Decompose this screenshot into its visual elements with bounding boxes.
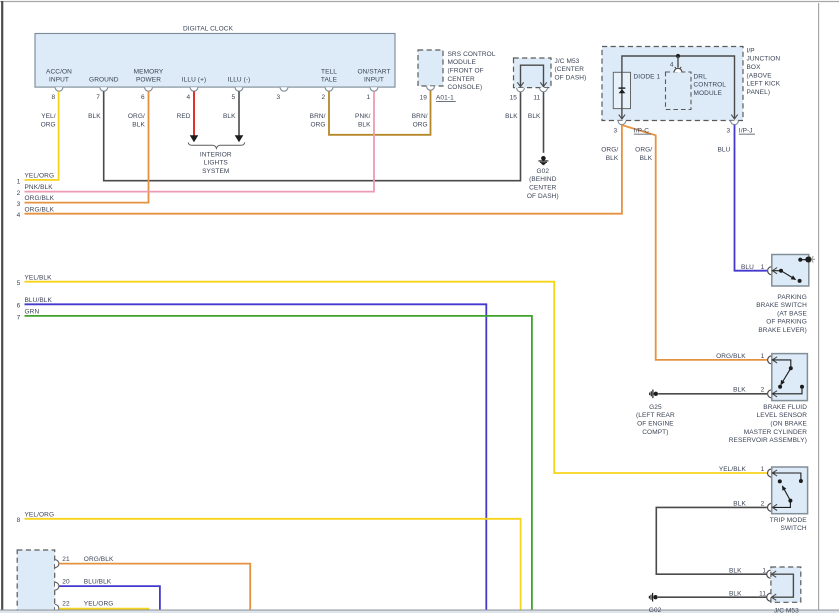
label YEL/BLK at trip mode switch <box>719 466 747 473</box>
label ORG/BLK at sensor <box>716 353 746 360</box>
label BLK at J/C M53 pin1 <box>729 567 742 574</box>
sensor pin number 2 <box>761 387 765 394</box>
svg-text:BLK: BLK <box>88 113 101 120</box>
svg-text:I/P: I/P <box>747 47 755 54</box>
label ORG/BLK pin6 <box>128 113 146 129</box>
svg-text:MASTER CYLINDER: MASTER CYLINDER <box>744 429 807 436</box>
svg-text:19: 19 <box>420 95 428 102</box>
label BLU <box>717 147 730 154</box>
junction node dot <box>676 54 680 58</box>
wire node8 YEL/ORG down <box>25 519 521 610</box>
svg-text:I/P-J: I/P-J <box>739 127 753 134</box>
svg-text:YEL/BLK: YEL/BLK <box>719 466 747 473</box>
svg-text:DIGITAL CLOCK: DIGITAL CLOCK <box>183 26 234 33</box>
junction connector J/C M53 box <box>514 58 552 88</box>
label BRN/ORG pin2 <box>310 113 326 129</box>
label G02 bottom <box>649 607 662 613</box>
svg-text:BLK: BLK <box>729 567 742 574</box>
module bottom-left connector box <box>17 550 55 613</box>
sensor pin1 connector <box>768 356 772 364</box>
J/C M53 pin numbers 15 11 <box>510 94 541 101</box>
svg-text:PANEL): PANEL) <box>747 89 771 96</box>
svg-text:ORG: ORG <box>413 122 428 129</box>
module DRL control module box <box>666 72 692 110</box>
svg-text:I/P-C: I/P-C <box>634 127 650 134</box>
svg-text:(AT BASE: (AT BASE <box>777 310 807 317</box>
svg-text:BLK: BLK <box>505 113 518 120</box>
wire node5 YEL/BLK to trip mode switch <box>25 282 767 473</box>
svg-text:BLK: BLK <box>733 387 746 394</box>
connector label I/P-C <box>634 127 651 134</box>
svg-text:MEMORY: MEMORY <box>134 68 164 75</box>
svg-text:1: 1 <box>762 567 766 574</box>
svg-text:GRN: GRN <box>25 309 40 316</box>
wire pin5 BLK to interior lights <box>235 91 244 142</box>
svg-text:3: 3 <box>276 94 280 101</box>
svg-text:RESERVOIR ASSEMBLY): RESERVOIR ASSEMBLY) <box>729 437 807 444</box>
footnote asterisk <box>805 256 815 262</box>
wire I/P-C ORG/BLK branch to brake fluid sensor <box>622 125 767 360</box>
I/P box pin connectors <box>618 121 738 125</box>
svg-text:J/C M53: J/C M53 <box>774 608 799 613</box>
svg-text:ORG/BLK: ORG/BLK <box>716 353 746 360</box>
I/P-J pin number 3 <box>726 127 730 134</box>
svg-text:8: 8 <box>51 94 55 101</box>
sensor pin2 connector <box>768 390 772 398</box>
svg-text:8: 8 <box>17 517 21 524</box>
svg-text:11: 11 <box>759 590 766 597</box>
wire G25 BLK to sensor pin2 <box>658 393 767 395</box>
digital clock pin connectors <box>55 87 378 91</box>
svg-text:BLK: BLK <box>358 122 371 129</box>
svg-text:15: 15 <box>510 94 518 101</box>
svg-text:MODULE: MODULE <box>694 90 723 97</box>
digital clock pin numbers 8 7 6 4 5 3 2 1 <box>51 94 370 101</box>
J/C M53 bottom pin11 connector <box>767 593 771 601</box>
label PARKING BRAKE SWITCH (AT BASE OF PARKING BRAKE LEVER) <box>756 294 807 334</box>
digital clock pin labels <box>46 68 390 83</box>
label BLK at trip mode switch <box>733 500 746 507</box>
svg-text:BRN/: BRN/ <box>310 113 326 120</box>
svg-text:ORG: ORG <box>41 122 56 129</box>
sensor pin number 1 <box>761 353 765 360</box>
svg-text:OF PARKING: OF PARKING <box>766 319 807 326</box>
label BLK at sensor <box>733 387 746 394</box>
diode D1 box <box>613 72 630 108</box>
module SRS control module box <box>418 50 443 86</box>
label DIODE 1 <box>634 73 661 80</box>
wire pin6 ORG/BLK to node 3 <box>25 91 149 202</box>
svg-text:BLK: BLK <box>606 155 619 162</box>
svg-text:7: 7 <box>96 94 100 101</box>
svg-text:ON/START: ON/START <box>357 68 390 75</box>
label BLK at J/C M53 pin11 <box>729 590 742 597</box>
diode D1 symbol <box>619 87 626 93</box>
svg-text:ORG/: ORG/ <box>128 113 145 120</box>
J/C M53 pin connectors <box>517 88 548 92</box>
page bottom edge <box>0 610 839 613</box>
svg-text:G02: G02 <box>649 607 662 613</box>
svg-text:11: 11 <box>533 94 540 101</box>
svg-text:LIGHTS: LIGHTS <box>204 160 229 167</box>
wire pin22 YEL/ORG down <box>59 609 148 610</box>
svg-text:TELL: TELL <box>321 68 337 75</box>
junction connector J/C M53 bottom box <box>771 567 801 602</box>
svg-text:6: 6 <box>141 94 145 101</box>
J/C M53 internal wire <box>521 65 544 87</box>
brace interior lights system <box>188 142 244 148</box>
svg-text:SYSTEM: SYSTEM <box>202 168 229 175</box>
label PNK/BLK pin1 <box>355 113 371 129</box>
svg-text:(FRONT OF: (FRONT OF <box>448 68 484 75</box>
brake fluid level sensor contacts <box>772 357 804 397</box>
svg-text:A01-1: A01-1 <box>436 95 454 102</box>
parking brake switch pin1 connector <box>768 267 772 275</box>
label BLK pin7 <box>88 113 101 120</box>
svg-text:7: 7 <box>17 314 21 321</box>
svg-text:MODULE: MODULE <box>448 59 477 66</box>
svg-text:ACC/ON: ACC/ON <box>46 68 72 75</box>
svg-text:OF DASH): OF DASH) <box>527 193 559 200</box>
wire node4 ORG/BLK to I/P-C pin3 <box>25 125 622 214</box>
label BRAKE FLUID LEVEL SENSOR (ON BRAKE MASTER CYLINDER RESERVOIR ASSEMBLY) <box>729 404 808 444</box>
label INTERIOR LIGHTS SYSTEM <box>200 152 232 175</box>
J/C M53 pin arrows <box>517 82 546 86</box>
svg-text:YEL/ORG: YEL/ORG <box>25 173 55 180</box>
svg-text:JUNCTION: JUNCTION <box>747 56 781 63</box>
svg-text:BLU/BLK: BLU/BLK <box>25 297 53 304</box>
label BLK pin11 <box>528 113 541 120</box>
svg-text:DRL: DRL <box>694 73 708 80</box>
svg-text:ORG/BLK: ORG/BLK <box>25 206 55 213</box>
wire G02 BLK to J/C M53 pin11 <box>658 596 767 598</box>
wire internal bus I/P junction box <box>622 56 735 118</box>
label I/P JUNCTION BOX (ABOVE LEFT KICK PANEL) <box>747 47 781 96</box>
label TRIP MODE SWITCH <box>770 517 807 532</box>
svg-text:PNK/BLK: PNK/BLK <box>25 184 54 191</box>
svg-text:BRN/: BRN/ <box>412 113 428 120</box>
switch S2 brake fluid level sensor box <box>772 354 808 401</box>
svg-text:2: 2 <box>761 500 765 507</box>
wire trip pin2 BLK to J/C M53 pin1 <box>656 507 767 574</box>
svg-text:(BEHIND: (BEHIND <box>529 176 557 183</box>
parking brake switch pin number 1 <box>761 264 765 271</box>
svg-text:4: 4 <box>670 61 674 68</box>
svg-text:G02: G02 <box>537 168 550 175</box>
svg-text:OF DASH): OF DASH) <box>555 75 587 82</box>
svg-text:3: 3 <box>613 127 617 134</box>
node 5 label YEL/BLK <box>17 274 52 287</box>
label BRN/ORG SRS <box>412 113 428 129</box>
svg-text:BLK: BLK <box>729 590 742 597</box>
I/P box pin arrows <box>619 115 738 119</box>
svg-text:TALE: TALE <box>321 77 338 84</box>
svg-text:BLU/BLK: BLU/BLK <box>84 578 112 585</box>
svg-text:BLU: BLU <box>717 147 730 154</box>
DRL pin number 4 <box>670 61 674 68</box>
J/C M53 bottom pin number 11 <box>759 590 766 597</box>
svg-text:20: 20 <box>62 578 70 585</box>
svg-text:SRS CONTROL: SRS CONTROL <box>448 51 496 58</box>
wire pin21 ORG/BLK down <box>59 564 250 610</box>
svg-text:COMPT): COMPT) <box>642 429 668 436</box>
svg-text:PNK/: PNK/ <box>355 113 371 120</box>
svg-text:5: 5 <box>17 280 21 287</box>
svg-text:CONTROL: CONTROL <box>694 82 727 89</box>
label RED pin4 <box>177 113 191 120</box>
svg-text:INTERIOR: INTERIOR <box>200 152 232 159</box>
module I/P junction box <box>602 47 743 121</box>
svg-text:RED: RED <box>177 113 191 120</box>
svg-text:POWER: POWER <box>136 77 161 84</box>
svg-text:CONSOLE): CONSOLE) <box>448 84 483 91</box>
svg-text:2: 2 <box>321 94 325 101</box>
svg-text:YEL/ORG: YEL/ORG <box>25 511 55 518</box>
wire pin7 BLK ground bus to J/C M53 pin15 <box>104 91 521 180</box>
svg-text:INPUT: INPUT <box>49 77 69 84</box>
svg-text:BOX: BOX <box>747 64 762 71</box>
label J/C M53 (CENTER OF DASH) <box>555 58 587 82</box>
svg-text:BRAKE FLUID: BRAKE FLUID <box>763 404 807 411</box>
label G02 (BEHIND CENTER OF DASH) <box>527 168 559 200</box>
wire node7 GRN down <box>25 316 532 610</box>
node 6 label BLU/BLK <box>17 297 53 310</box>
svg-text:BLK: BLK <box>733 500 746 507</box>
connector label A01-1 <box>436 95 456 102</box>
label BLK pin5 <box>223 113 236 120</box>
svg-text:3: 3 <box>726 127 730 134</box>
node 3 label ORG/BLK <box>17 195 55 208</box>
wire pin20 BLU/BLK down <box>59 586 160 610</box>
I/P-C pin number 3 <box>613 127 617 134</box>
svg-text:YEL/: YEL/ <box>41 113 56 120</box>
ground G02 behind dash <box>538 156 548 165</box>
svg-text:1: 1 <box>761 264 765 271</box>
svg-text:BLU: BLU <box>741 264 754 271</box>
DRL pin4 connector <box>674 68 682 72</box>
J/C M53 bottom pin number 1 <box>762 567 766 574</box>
wire I/P-J BLU to parking brake switch <box>735 125 767 271</box>
svg-text:BRAKE LEVER): BRAKE LEVER) <box>758 327 807 334</box>
svg-text:TRIP MODE: TRIP MODE <box>770 517 807 524</box>
trip mode switch pin number 1 <box>761 466 765 473</box>
svg-text:YEL/BLK: YEL/BLK <box>25 274 53 281</box>
DRL pin4 arrow <box>675 67 681 71</box>
svg-text:CENTER: CENTER <box>529 185 557 192</box>
svg-text:(ON BRAKE: (ON BRAKE <box>770 421 807 428</box>
svg-text:SWITCH: SWITCH <box>780 525 806 532</box>
node 4 label ORG/BLK <box>17 206 55 219</box>
ground G02 bottom <box>649 593 657 602</box>
connector label I/P-J <box>739 127 755 134</box>
svg-text:OF ENGINE: OF ENGINE <box>637 421 674 428</box>
svg-text:(LEFT REAR: (LEFT REAR <box>636 412 675 419</box>
wire pin8 YEL/ORG to node 1 <box>25 91 59 179</box>
switch S3 trip mode switch box <box>772 467 808 514</box>
label ORG/BLK diode leg <box>601 147 619 163</box>
svg-text:BLK: BLK <box>528 113 541 120</box>
svg-text:BRAKE SWITCH: BRAKE SWITCH <box>756 302 807 309</box>
svg-text:ORG: ORG <box>310 122 325 129</box>
label BLU at parking brake switch <box>741 264 754 271</box>
node 7 label GRN <box>17 309 40 322</box>
svg-text:ORG/: ORG/ <box>635 147 652 154</box>
J/C M53 bottom pin1 connector <box>767 570 771 578</box>
label BLK pin15 <box>505 113 518 120</box>
pin number 20 label BLU/BLK <box>62 578 112 585</box>
svg-text:1: 1 <box>17 178 21 185</box>
svg-text:1: 1 <box>761 466 765 473</box>
wire node6 BLU/BLK down <box>25 304 487 609</box>
svg-text:BLK: BLK <box>640 155 653 162</box>
trip mode switch pin1 connector <box>768 469 772 477</box>
svg-text:(CENTER: (CENTER <box>555 66 585 73</box>
label DRL CONTROL MODULE <box>694 73 727 97</box>
svg-text:2: 2 <box>17 190 21 197</box>
wire stub to DRL pin 4 <box>677 56 679 68</box>
bottom-left box pin connectors <box>55 560 59 613</box>
wire pin1 PNK/BLK to node 2 <box>25 91 375 191</box>
svg-text:GROUND: GROUND <box>89 77 119 84</box>
svg-text:YEL/ORG: YEL/ORG <box>84 600 114 607</box>
svg-text:LEFT KICK: LEFT KICK <box>747 81 781 88</box>
svg-text:5: 5 <box>231 94 235 101</box>
node 8 label YEL/ORG <box>17 511 54 524</box>
J/C M53 bottom internal wire <box>772 571 794 600</box>
module U1 digital clock box <box>35 34 395 88</box>
node 2 label PNK/BLK <box>17 184 54 197</box>
svg-text:1: 1 <box>761 353 765 360</box>
trip mode switch pin2 connector <box>768 503 772 511</box>
wire pin4 RED to interior lights <box>190 91 199 142</box>
svg-text:BLK: BLK <box>132 122 145 129</box>
label ORG/BLK branch <box>635 147 653 163</box>
svg-text:2: 2 <box>761 387 765 394</box>
switch S1 parking brake switch box <box>772 255 809 287</box>
svg-text:ILLU (+): ILLU (+) <box>182 77 206 84</box>
label J/C M53 bottom <box>774 608 799 613</box>
trip mode switch contacts <box>772 470 803 511</box>
label G25 (LEFT REAR OF ENGINE COMPT) <box>636 404 675 436</box>
svg-text:BLK: BLK <box>223 113 236 120</box>
svg-text:6: 6 <box>17 303 21 310</box>
svg-text:ILLU (-): ILLU (-) <box>228 77 251 84</box>
svg-text:(ABOVE: (ABOVE <box>747 72 773 79</box>
svg-text:CENTER: CENTER <box>448 76 476 83</box>
svg-text:3: 3 <box>17 201 21 208</box>
SRS pin number 19 <box>420 95 428 102</box>
wire pin11 BLK to G02 <box>543 92 545 153</box>
svg-text:1: 1 <box>366 94 370 101</box>
svg-text:4: 4 <box>17 212 21 219</box>
svg-text:DIODE 1: DIODE 1 <box>634 73 661 80</box>
pin number 21 label ORG/BLK <box>62 556 114 563</box>
svg-text:PARKING: PARKING <box>777 294 806 301</box>
svg-text:ORG/: ORG/ <box>601 147 618 154</box>
label DIGITAL CLOCK <box>183 26 234 33</box>
parking brake switch contacts <box>772 258 806 283</box>
trip mode switch pin number 2 <box>761 500 765 507</box>
svg-text:INPUT: INPUT <box>364 77 384 84</box>
svg-text:ORG/BLK: ORG/BLK <box>84 556 114 563</box>
pin number 22 label YEL/ORG <box>62 600 113 607</box>
svg-text:LEVEL SENSOR: LEVEL SENSOR <box>757 412 808 419</box>
svg-text:21: 21 <box>62 556 70 563</box>
node 1 label YEL/ORG <box>17 173 54 186</box>
svg-text:ORG/BLK: ORG/BLK <box>25 195 55 202</box>
ground G25 <box>650 390 658 399</box>
label SRS CONTROL MODULE (FRONT OF CENTER CONSOLE) <box>448 51 496 91</box>
label YEL/ORG pin8 <box>41 113 56 129</box>
svg-text:J/C M53: J/C M53 <box>555 58 580 65</box>
SRS pin connector <box>427 86 435 90</box>
svg-text:4: 4 <box>186 94 190 101</box>
wire pin2 BRN/ORG to SRS pin19 <box>329 90 431 135</box>
svg-text:G25: G25 <box>649 404 662 411</box>
svg-text:22: 22 <box>62 600 70 607</box>
